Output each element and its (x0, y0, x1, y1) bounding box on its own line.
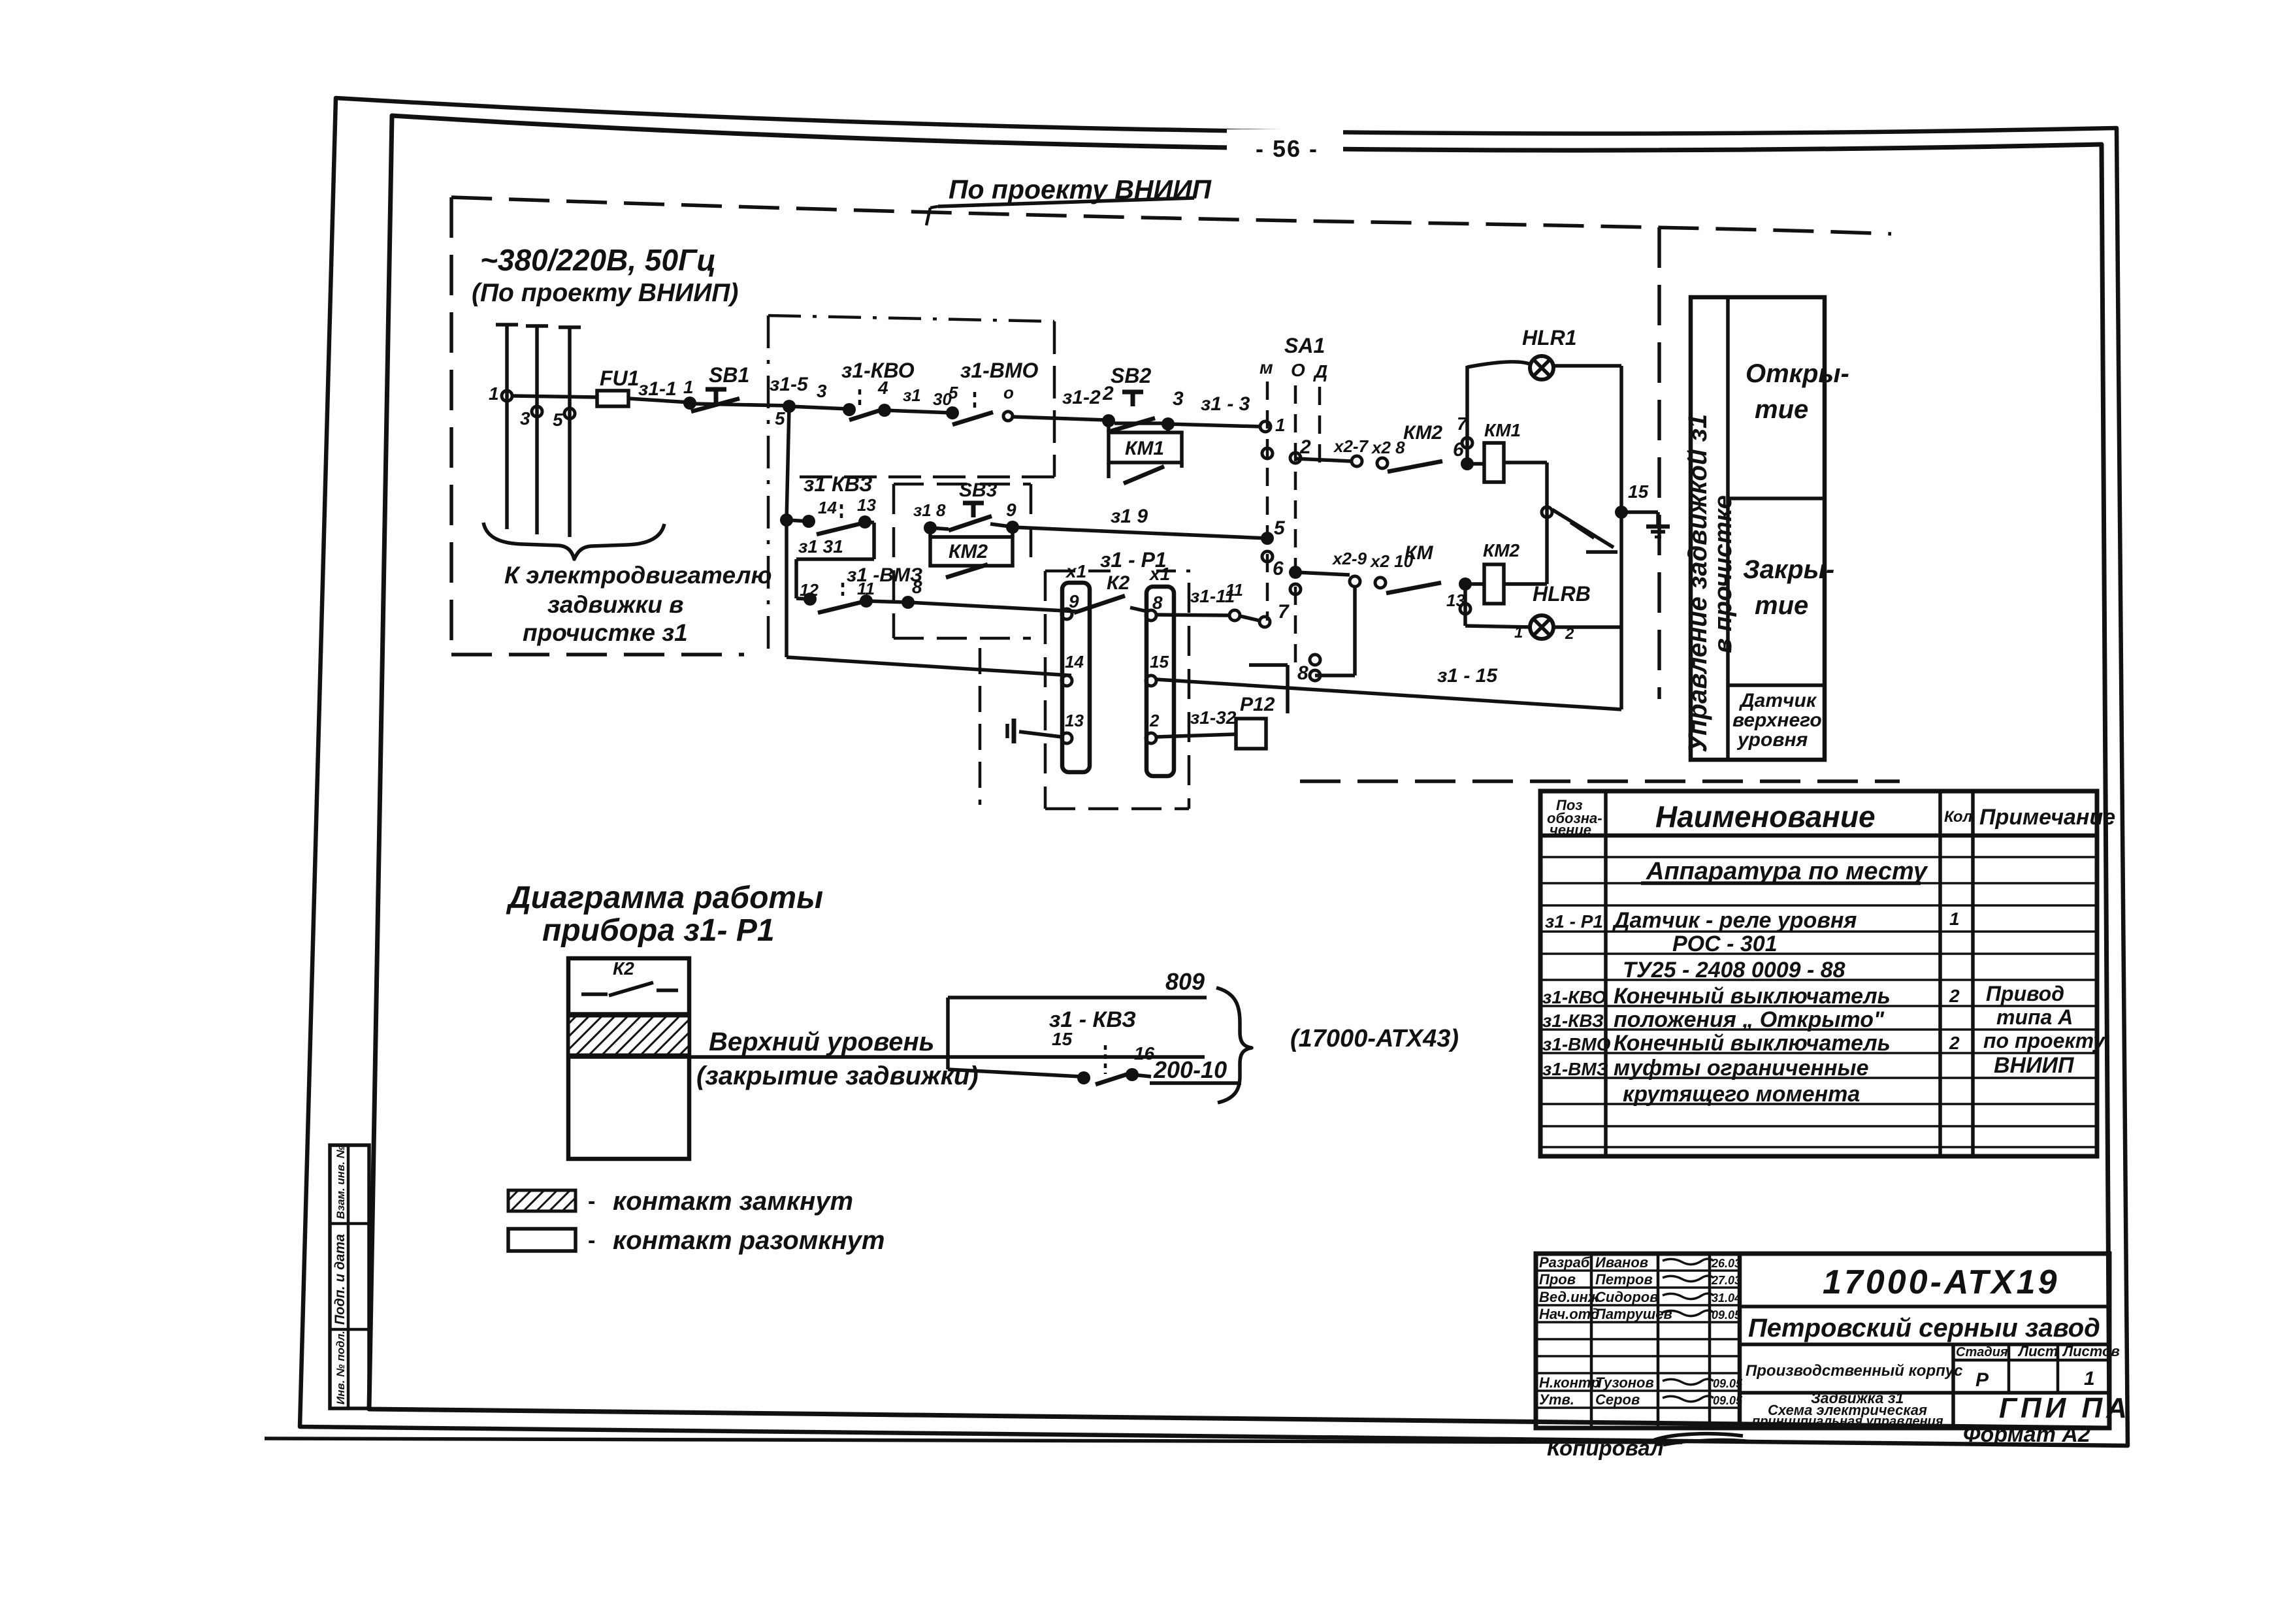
svg-text:HLRВ: HLRВ (1533, 582, 1591, 606)
svg-text:Производственный корпус: Производственный корпус (1746, 1362, 1962, 1380)
svg-text:Взам. инв. №: Взам. инв. № (334, 1145, 347, 1219)
svg-text:КМ1: КМ1 (1125, 438, 1164, 459)
svg-text:Н.контр: Н.контр (1539, 1374, 1600, 1391)
svg-text:ВНИИП: ВНИИП (1994, 1053, 2075, 1078)
svg-text:-: - (588, 1228, 595, 1253)
svg-text:х1: х1 (1148, 564, 1170, 584)
svg-text:з1-ВМО: з1-ВМО (960, 359, 1039, 382)
svg-text:1: 1 (683, 377, 694, 397)
svg-text:х2-9: х2-9 (1331, 549, 1367, 568)
svg-text:Датчик - реле уровня: Датчик - реле уровня (1612, 908, 1857, 933)
svg-text:26.03: 26.03 (1711, 1257, 1741, 1270)
svg-text:уровня: уровня (1736, 729, 1808, 751)
svg-text:з1 - 15: з1 - 15 (1437, 665, 1498, 687)
svg-text:8: 8 (1297, 662, 1308, 684)
svg-text:Подп. и дата: Подп. и дата (333, 1234, 348, 1325)
svg-text:з1: з1 (903, 385, 921, 405)
svg-text:31.04: 31.04 (1712, 1291, 1741, 1305)
svg-text:Копировал: Копировал (1547, 1436, 1664, 1460)
svg-text:Р12: Р12 (1240, 694, 1275, 715)
svg-text:з1-2: з1-2 (1062, 387, 1101, 408)
svg-text:ГПИ ПА: ГПИ ПА (1999, 1392, 2131, 1424)
svg-text:Пров: Пров (1539, 1271, 1576, 1288)
svg-text:Петров: Петров (1595, 1271, 1653, 1288)
svg-text:1: 1 (1275, 415, 1286, 435)
svg-text:типа А: типа А (1996, 1005, 2073, 1029)
svg-text:з1-ВМО: з1-ВМО (1542, 1034, 1611, 1054)
svg-text:з1 31: з1 31 (798, 536, 843, 557)
svg-text:з1 - Р1: з1 - Р1 (1545, 911, 1603, 932)
svg-text:Д: Д (1313, 361, 1327, 382)
svg-text:2: 2 (1949, 1033, 1960, 1053)
svg-text:Серов: Серов (1595, 1391, 1640, 1408)
svg-text:Стадия: Стадия (1956, 1345, 2008, 1359)
svg-text:КМ2: КМ2 (1403, 422, 1442, 444)
svg-text:1: 1 (1949, 909, 1960, 929)
svg-text:положения „ Открыто": положения „ Открыто" (1614, 1007, 1885, 1032)
svg-text:К2: К2 (1107, 572, 1129, 594)
svg-text:13: 13 (1065, 711, 1084, 730)
svg-text:~380/220В, 50Гц: ~380/220В, 50Гц (480, 243, 716, 277)
svg-text:809: 809 (1165, 968, 1205, 995)
svg-text:з1-КВО: з1-КВО (1542, 987, 1606, 1007)
svg-text:чение: чение (1550, 822, 1591, 838)
svg-text:15: 15 (1628, 481, 1649, 502)
svg-text:3: 3 (1173, 388, 1184, 410)
svg-text:Р: Р (1975, 1369, 1989, 1391)
svg-text:Вед.инж: Вед.инж (1539, 1289, 1600, 1305)
svg-text:Листов: Листов (2062, 1343, 2120, 1359)
svg-text:з1-1: з1-1 (638, 378, 677, 400)
svg-text:Инв. № подл.: Инв. № подл. (334, 1331, 347, 1405)
svg-text:2: 2 (1565, 625, 1574, 643)
svg-text:в прочистке: в прочистке (1710, 495, 1737, 653)
svg-text:Разраб: Разраб (1539, 1254, 1591, 1271)
svg-text:х1: х1 (1065, 561, 1086, 581)
svg-text:ТУ25 - 2408 0009 - 88: ТУ25 - 2408 0009 - 88 (1623, 958, 1845, 983)
svg-text:(По проекту ВНИИП): (По проекту ВНИИП) (472, 279, 738, 307)
svg-text:Наименование: Наименование (1655, 800, 1876, 834)
svg-text:3: 3 (520, 408, 530, 429)
svg-text:муфты ограниченные: муфты ограниченные (1614, 1056, 1869, 1080)
svg-text:О: О (1291, 360, 1305, 380)
svg-text:5: 5 (553, 410, 563, 430)
svg-text:КМ2: КМ2 (1483, 540, 1520, 560)
svg-text:К2: К2 (613, 958, 634, 979)
svg-text:Управление задвижкой з1: Управление задвижкой з1 (1683, 414, 1712, 753)
svg-text:5: 5 (775, 408, 785, 429)
svg-text:5: 5 (949, 383, 958, 402)
svg-text:Кол: Кол (1944, 808, 1973, 826)
svg-text:з1 - КВЗ: з1 - КВЗ (1049, 1007, 1136, 1032)
svg-text:Патрушев: Патрушев (1595, 1306, 1672, 1322)
svg-text:задвижки в: задвижки в (547, 591, 684, 618)
svg-text:1: 1 (2084, 1368, 2095, 1389)
svg-text:11: 11 (1226, 580, 1243, 600)
svg-text:з1 - 3: з1 - 3 (1201, 393, 1250, 415)
svg-text:контакт разомкнут: контакт разомкнут (613, 1226, 885, 1255)
svg-text:1: 1 (1514, 624, 1523, 641)
svg-text:х2-7: х2-7 (1333, 436, 1369, 456)
svg-text:6: 6 (1273, 558, 1284, 579)
svg-text:1: 1 (489, 383, 499, 404)
svg-text:КМ2: КМ2 (949, 541, 988, 562)
svg-text:прибора з1- Р1: прибора з1- Р1 (542, 913, 775, 948)
svg-text:8: 8 (912, 577, 922, 597)
svg-text:по проекту: по проекту (1983, 1029, 2106, 1052)
svg-text:(17000-АТХ43): (17000-АТХ43) (1290, 1025, 1459, 1052)
svg-text:тие: тие (1755, 591, 1808, 620)
svg-text:7: 7 (1278, 601, 1290, 623)
svg-text:Закры-: Закры- (1743, 555, 1834, 584)
svg-text:Конечный выключатель: Конечный выключатель (1614, 1031, 1891, 1056)
svg-text:принципиальная управления: принципиальная управления (1752, 1414, 1943, 1429)
svg-text:з1 8: з1 8 (913, 500, 946, 520)
svg-text:FU1: FU1 (600, 366, 639, 390)
svg-text:КМ1: КМ1 (1484, 420, 1521, 440)
svg-text:SA1: SA1 (1284, 334, 1325, 357)
svg-text:Лист: Лист (2017, 1343, 2058, 1359)
svg-text:SB2: SB2 (1111, 364, 1151, 387)
svg-text:тие: тие (1755, 395, 1808, 424)
svg-text:5: 5 (1274, 517, 1286, 539)
svg-text:14: 14 (818, 498, 837, 517)
svg-text:Откры-: Откры- (1746, 359, 1849, 388)
svg-text:SB3: SB3 (959, 479, 998, 501)
svg-text:Петровский серныи завод: Петровский серныи завод (1748, 1314, 2100, 1342)
svg-text:200-10: 200-10 (1153, 1056, 1227, 1083)
svg-text:з1-32: з1-32 (1190, 707, 1237, 728)
svg-text:з1-5: з1-5 (770, 374, 809, 395)
svg-text:Сидоров: Сидоров (1595, 1289, 1659, 1305)
svg-text:з1-ВМЗ: з1-ВМЗ (1542, 1059, 1608, 1079)
svg-text:SB1: SB1 (709, 363, 749, 387)
svg-text:Примечание: Примечание (1979, 805, 2115, 830)
svg-text:Иванов: Иванов (1595, 1254, 1648, 1271)
svg-text:2: 2 (1149, 711, 1160, 730)
svg-text:3: 3 (817, 381, 827, 401)
svg-text:Конечный выключатель: Конечный выключатель (1614, 984, 1891, 1009)
svg-text:Нач.отд: Нач.отд (1539, 1306, 1600, 1322)
svg-text:Утв.: Утв. (1539, 1391, 1574, 1408)
svg-text:РОС - 301: РОС - 301 (1672, 932, 1778, 956)
svg-text:-: - (588, 1189, 595, 1214)
svg-text:з1 КВЗ: з1 КВЗ (804, 472, 873, 496)
svg-text:з1-КВЗ: з1-КВЗ (1542, 1011, 1604, 1031)
svg-text:Диаграмма работы: Диаграмма работы (506, 881, 823, 915)
svg-text:- 56 -: - 56 - (1256, 135, 1318, 162)
svg-text:9: 9 (1006, 500, 1016, 520)
svg-text:х2 8: х2 8 (1371, 438, 1405, 457)
svg-text:09.05: 09.05 (1713, 1377, 1743, 1390)
svg-text:о: о (1003, 383, 1014, 402)
svg-text:контакт замкнут: контакт замкнут (613, 1187, 853, 1216)
svg-text:13: 13 (1446, 591, 1465, 610)
svg-text:27.03: 27.03 (1711, 1274, 1741, 1287)
svg-text:Привод: Привод (1986, 982, 2064, 1005)
svg-text:14: 14 (1065, 652, 1084, 672)
svg-text:2: 2 (1949, 986, 1960, 1006)
svg-text:Верхний уровень: Верхний уровень (709, 1028, 934, 1056)
svg-text:16: 16 (1134, 1043, 1155, 1064)
svg-text:09.05: 09.05 (1712, 1308, 1742, 1322)
svg-text:15: 15 (1150, 652, 1169, 672)
svg-text:м: м (1259, 357, 1273, 378)
svg-text:крутящего момента: крутящего момента (1623, 1082, 1860, 1107)
svg-text:верхнего: верхнего (1732, 709, 1822, 731)
svg-text:КМ: КМ (1405, 542, 1433, 564)
svg-text:Тузонов: Тузонов (1595, 1374, 1654, 1391)
svg-text:Датчик: Датчик (1738, 690, 1817, 711)
svg-text:13: 13 (857, 495, 876, 515)
svg-text:прочистке з1: прочистке з1 (523, 619, 688, 646)
svg-text:09.05: 09.05 (1713, 1394, 1743, 1407)
svg-text:4: 4 (877, 378, 888, 398)
svg-text:17000-АТХ19: 17000-АТХ19 (1823, 1263, 2060, 1301)
svg-text:К электродвигателю: К электродвигателю (504, 562, 772, 589)
svg-text:HLR1: HLR1 (1522, 326, 1577, 349)
svg-text:Аппаратура по месту: Аппаратура по месту (1646, 858, 1928, 885)
svg-text:з1 9: з1 9 (1111, 506, 1148, 527)
svg-text:(закрытие задвижки): (закрытие задвижки) (696, 1062, 979, 1090)
